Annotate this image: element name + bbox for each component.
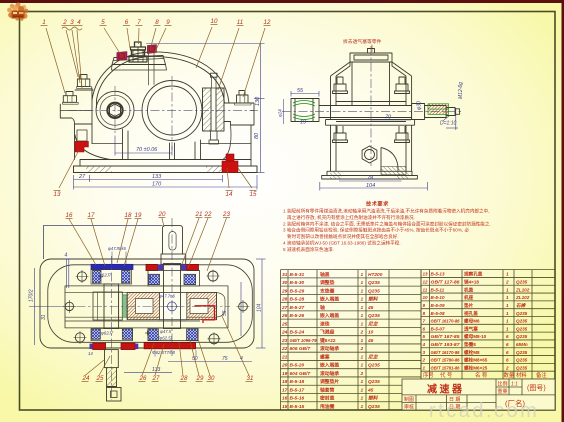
svg-text:GB/T 117-86: GB/T 117-86 — [431, 280, 460, 285]
svg-text:2: 2 — [360, 330, 364, 336]
svg-text:10: 10 — [211, 18, 218, 25]
svg-text:9: 9 — [166, 19, 170, 26]
svg-text:4: 4 — [65, 253, 68, 259]
svg-text:滚动轴承: 滚动轴承 — [320, 345, 339, 352]
svg-text:比例: 比例 — [498, 381, 508, 388]
svg-text:轴盖: 轴盖 — [320, 271, 330, 278]
svg-text:2: 2 — [360, 346, 364, 352]
svg-text:20: 20 — [158, 211, 166, 218]
svg-text:机座: 机座 — [464, 294, 474, 301]
svg-text:2: 2 — [62, 19, 67, 26]
svg-text:机盖: 机盖 — [464, 286, 474, 293]
svg-text:10: 10 — [368, 330, 374, 336]
svg-text:螺栓M8: 螺栓M8 — [464, 349, 480, 356]
svg-text:Q235: Q235 — [516, 350, 528, 355]
svg-text:Q235: Q235 — [516, 280, 528, 285]
svg-text:GB/T 1096-79: GB/T 1096-79 — [290, 338, 317, 344]
svg-text:Q235: Q235 — [368, 379, 380, 385]
svg-text:B-5-10: B-5-10 — [431, 295, 445, 300]
svg-text:11: 11 — [423, 287, 428, 292]
svg-text:6: 6 — [423, 326, 426, 331]
svg-text:轴: 轴 — [320, 304, 325, 311]
svg-text:备注: 备注 — [536, 371, 547, 379]
svg-text:16: 16 — [66, 212, 73, 219]
svg-text:B-5-08: B-5-08 — [431, 311, 445, 316]
svg-text:ZL102: ZL102 — [515, 287, 530, 292]
svg-text:28: 28 — [281, 297, 288, 303]
svg-text:12: 12 — [423, 280, 429, 285]
svg-text:技术要求: 技术要求 — [366, 200, 389, 208]
BOM table — [281, 270, 556, 410]
svg-text:螺塞: 螺塞 — [320, 353, 330, 360]
svg-text:30: 30 — [208, 375, 215, 382]
svg-text:24: 24 — [281, 330, 288, 336]
svg-text:17: 17 — [282, 387, 288, 393]
svg-text:Q235: Q235 — [516, 365, 528, 370]
technical notes — [283, 200, 491, 254]
svg-text:嵌入端盖: 嵌入端盖 — [320, 312, 339, 319]
svg-text:15: 15 — [250, 191, 257, 198]
svg-text:14: 14 — [88, 351, 93, 356]
svg-text:104: 104 — [366, 183, 375, 189]
svg-text:604 GB/T: 604 GB/T — [290, 371, 312, 377]
svg-text:5 减速机表面涂灰色油漆.: 5 减速机表面涂灰色油漆. — [283, 246, 334, 253]
svg-text:1: 1 — [361, 354, 364, 360]
svg-text:55: 55 — [222, 310, 228, 316]
svg-text:Q235: Q235 — [516, 319, 528, 324]
svg-text:Q235: Q235 — [516, 326, 528, 331]
svg-text:GB/T 16170-86: GB/T 16170-86 — [431, 319, 460, 324]
svg-text:70 ±0.06: 70 ±0.06 — [136, 147, 158, 153]
svg-text:4: 4 — [77, 19, 81, 26]
svg-text:HT200: HT200 — [368, 272, 383, 278]
svg-text:45: 45 — [367, 387, 374, 393]
svg-text:11: 11 — [237, 19, 243, 26]
svg-text:6: 6 — [506, 350, 509, 355]
svg-text:制图: 制图 — [404, 396, 414, 403]
svg-text:1: 1 — [361, 297, 364, 303]
svg-text:1: 1 — [361, 338, 364, 344]
svg-text:拆去透气塞等零件: 拆去透气塞等零件 — [343, 38, 382, 45]
svg-text:φ62J7: φ62J7 — [99, 273, 112, 278]
svg-text:B-5-15: B-5-15 — [290, 404, 305, 410]
svg-text:5: 5 — [101, 19, 105, 26]
svg-text:7: 7 — [137, 19, 141, 26]
svg-text:销4×18: 销4×18 — [464, 279, 479, 286]
svg-text:23: 23 — [281, 338, 288, 344]
svg-text:Q235: Q235 — [368, 363, 380, 369]
svg-text:21: 21 — [281, 354, 288, 360]
svg-text:6: 6 — [506, 342, 509, 347]
svg-text:Q235: Q235 — [368, 313, 380, 319]
svg-text:1: 1 — [42, 19, 45, 26]
svg-text:B-5-20: B-5-20 — [290, 363, 305, 369]
svg-text:GB/T 167-85: GB/T 167-85 — [431, 334, 460, 339]
svg-text:代 号: 代 号 — [440, 371, 453, 379]
svg-text:甩油圈: 甩油圈 — [319, 403, 335, 410]
svg-text:支垫圈: 支垫圈 — [320, 287, 335, 294]
svg-text:6: 6 — [506, 334, 509, 339]
svg-text:80: 80 — [254, 132, 260, 139]
svg-text:尼龙: 尼龙 — [368, 320, 379, 327]
svg-text:密封盖: 密封盖 — [320, 395, 335, 402]
svg-text:审核: 审核 — [404, 404, 414, 411]
svg-text:1: 1 — [361, 396, 364, 402]
svg-text:滚动轴承: 滚动轴承 — [320, 370, 339, 377]
svg-text:1: 1 — [361, 321, 364, 327]
svg-text:9: 9 — [423, 303, 426, 308]
svg-text:GB/T 193-87: GB/T 193-87 — [431, 342, 460, 347]
svg-text:石棉: 石棉 — [516, 303, 527, 308]
svg-text:18: 18 — [125, 212, 132, 219]
svg-text:Q235: Q235 — [368, 404, 380, 410]
svg-text:26: 26 — [281, 313, 288, 319]
svg-text:2: 2 — [360, 371, 364, 377]
svg-text:螺母M6: 螺母M6 — [464, 318, 480, 325]
svg-text:130: 130 — [255, 96, 261, 106]
svg-text:GB/T 15781-86: GB/T 15781-86 — [431, 365, 460, 370]
svg-text:1: 1 — [506, 311, 509, 316]
svg-text:键6×22: 键6×22 — [319, 337, 336, 344]
svg-text:31: 31 — [247, 375, 254, 382]
svg-text:螺母M8-10: 螺母M8-10 — [464, 333, 487, 340]
FRONT VIEW — [60, 42, 257, 173]
svg-text:18: 18 — [282, 379, 288, 385]
title block — [402, 379, 555, 410]
svg-text:2 装配前箱体内不涂漆, 结合之平面, 无需纸垫片之箱盖与箱: 2 装配前箱体内不涂漆, 结合之平面, 无需纸垫片之箱盖与箱体接合面可涂密封胶以… — [283, 221, 491, 228]
svg-text:29: 29 — [196, 375, 204, 382]
svg-text:ZL102: ZL102 — [515, 295, 530, 300]
svg-text:1: 1 — [506, 319, 509, 324]
svg-text:16: 16 — [282, 396, 288, 402]
svg-text:27: 27 — [152, 375, 160, 382]
svg-text:1:1: 1:1 — [511, 382, 518, 388]
svg-text:65Mn: 65Mn — [516, 342, 528, 347]
svg-text:Q235: Q235 — [516, 334, 528, 339]
svg-text:14: 14 — [226, 191, 233, 198]
svg-text:螺栓M6×25: 螺栓M6×25 — [464, 364, 488, 371]
logo top-left — [7, 2, 28, 21]
svg-text:19: 19 — [135, 212, 142, 219]
svg-text:1: 1 — [506, 287, 509, 292]
svg-text:75: 75 — [222, 356, 228, 362]
svg-text:螺栓M8×65: 螺栓M8×65 — [464, 357, 488, 364]
svg-text:嵌入端盖: 嵌入端盖 — [320, 362, 339, 369]
svg-text:Φ62.5T7/h8: Φ62.5T7/h8 — [152, 350, 176, 355]
svg-text:27: 27 — [78, 174, 86, 180]
svg-text:45: 45 — [367, 338, 374, 344]
svg-text:22: 22 — [204, 211, 212, 218]
svg-text:塑料: 塑料 — [368, 296, 379, 303]
svg-text:嵌入端盖: 嵌入端盖 — [320, 296, 339, 303]
svg-text:B-5-18: B-5-18 — [290, 379, 305, 385]
svg-text:20: 20 — [281, 363, 288, 369]
svg-text:滚珠: 滚珠 — [320, 320, 330, 327]
svg-text:φ30: φ30 — [417, 101, 423, 110]
svg-text:1: 1 — [361, 313, 364, 319]
svg-text:1: 1 — [506, 295, 509, 300]
svg-text:25: 25 — [96, 375, 104, 382]
svg-text:13: 13 — [423, 272, 429, 277]
svg-text:17: 17 — [88, 212, 95, 219]
svg-text:4: 4 — [422, 342, 426, 347]
svg-text:133: 133 — [152, 174, 162, 180]
svg-text:24: 24 — [82, 375, 90, 382]
svg-text:GB/T 15780-86: GB/T 15780-86 — [431, 358, 460, 363]
svg-text:21: 21 — [195, 211, 203, 218]
svg-text:1: 1 — [361, 404, 364, 410]
svg-text:Q235: Q235 — [368, 288, 380, 294]
svg-text:28: 28 — [180, 375, 188, 382]
svg-text:调整垫片: 调整垫片 — [320, 378, 339, 385]
svg-text:1 装配前所有零件用煤油清洗,滚动轴承用汽油清洗,干后涂油,: 1 装配前所有零件用煤油清洗,滚动轴承用汽油清洗,干后涂油,不允许有杂质附着污物… — [283, 208, 489, 215]
svg-text:1: 1 — [361, 272, 364, 278]
svg-text:29: 29 — [281, 288, 288, 294]
svg-text:调整垫: 调整垫 — [320, 279, 335, 286]
svg-text:4 滚动轴承装机WJ-50 (GBT 16.63-1986): 4 滚动轴承装机WJ-50 (GBT 16.63-1986) 试验之运转平稳. — [283, 240, 401, 247]
svg-text:φ47.7n6: φ47.7n6 — [159, 294, 176, 299]
svg-text:B-5-28: B-5-28 — [290, 297, 305, 303]
svg-text:减速器: 减速器 — [427, 383, 465, 396]
svg-text:70: 70 — [385, 115, 392, 121]
svg-text:B-5-31: B-5-31 — [290, 272, 305, 278]
svg-text:φ62J7: φ62J7 — [101, 331, 114, 336]
svg-text:(图号): (图号) — [527, 384, 546, 392]
svg-text:透气塞: 透气塞 — [464, 325, 478, 332]
svg-text:垫片: 垫片 — [464, 302, 474, 309]
svg-text:要时可刮研以改善接触斑点状况并使其在全部啮合良好.: 要时可刮研以改善接触斑点状况并使其在全部啮合良好. — [287, 233, 399, 240]
svg-text:1: 1 — [361, 280, 364, 286]
svg-text:尼龙: 尼龙 — [368, 353, 379, 360]
svg-text:B-5-24: B-5-24 — [290, 330, 305, 336]
svg-text:26: 26 — [139, 375, 147, 382]
svg-text:Q235: Q235 — [368, 280, 380, 286]
svg-text:1: 1 — [361, 379, 364, 385]
svg-text:rtcad.com: rtcad.com — [429, 400, 539, 422]
svg-text:45: 45 — [367, 305, 374, 311]
svg-text:3 啮合齿侧间隙用铅丝检验, 保证侧隙接触斑点按齿高不小于4: 3 啮合齿侧间隙用铅丝检验, 保证侧隙接触斑点按齿高不小于45%, 按齿长斑点不… — [283, 227, 469, 234]
svg-text:13: 13 — [54, 191, 61, 198]
svg-text:D=1:10: D=1:10 — [440, 121, 456, 127]
svg-text:φ24: φ24 — [279, 109, 284, 117]
svg-text:B-5-29: B-5-29 — [290, 288, 305, 294]
svg-text:B-5-07: B-5-07 — [431, 326, 445, 331]
svg-text:1: 1 — [506, 303, 509, 308]
svg-text:10: 10 — [423, 295, 429, 300]
svg-text:1: 1 — [361, 363, 364, 369]
svg-text:55: 55 — [297, 88, 304, 94]
svg-text:B-5-26: B-5-26 — [290, 313, 305, 319]
svg-text:B-5-30: B-5-30 — [290, 280, 305, 286]
svg-text:(φ62.5): (φ62.5) — [158, 336, 173, 341]
svg-text:B-5-17: B-5-17 — [290, 387, 305, 393]
svg-text:视孔盖: 视孔盖 — [464, 310, 478, 317]
svg-text:31: 31 — [41, 314, 47, 320]
svg-text:φ47.5: φ47.5 — [160, 329, 172, 334]
svg-text:B-5-13: B-5-13 — [431, 272, 445, 277]
svg-text:GB/T 16170-86: GB/T 16170-86 — [431, 350, 460, 355]
svg-text:重量: 重量 — [498, 388, 508, 395]
svg-text:22: 22 — [281, 346, 288, 352]
svg-text:φ47J5/k6: φ47J5/k6 — [108, 246, 126, 251]
svg-text:5: 5 — [423, 334, 426, 339]
svg-text:23: 23 — [222, 211, 230, 218]
svg-text:12: 12 — [264, 19, 271, 26]
svg-text:3: 3 — [70, 19, 74, 26]
svg-text:1: 1 — [506, 326, 509, 331]
svg-text:31: 31 — [282, 272, 288, 278]
svg-text:78: 78 — [367, 176, 374, 182]
svg-text:27: 27 — [281, 305, 288, 311]
svg-text:B-5-16: B-5-16 — [290, 396, 305, 402]
svg-text:25: 25 — [281, 321, 288, 327]
svg-text:1: 1 — [361, 305, 364, 311]
svg-text:轴套筒: 轴套筒 — [320, 386, 335, 393]
svg-text:3: 3 — [423, 350, 426, 355]
svg-text:19: 19 — [300, 120, 306, 126]
svg-text:B-5-27: B-5-27 — [290, 305, 305, 311]
svg-text:垫圈8: 垫圈8 — [464, 341, 476, 348]
svg-text:飞溅盘: 飞溅盘 — [320, 329, 335, 336]
svg-text:19: 19 — [282, 371, 288, 377]
SECTION VIEW (bottom-left) — [40, 259, 254, 348]
svg-text:2: 2 — [505, 280, 509, 285]
svg-text:1: 1 — [423, 365, 426, 370]
svg-text:M12-6g: M12-6g — [458, 82, 464, 99]
svg-text:2: 2 — [505, 365, 509, 370]
svg-text:8: 8 — [423, 311, 426, 316]
svg-text:15: 15 — [282, 404, 288, 410]
svg-text:名 称: 名 称 — [475, 371, 488, 379]
svg-text:6: 6 — [506, 358, 509, 363]
svg-text:7: 7 — [423, 319, 426, 324]
svg-text:2: 2 — [422, 358, 426, 363]
svg-text:Q235: Q235 — [516, 311, 528, 316]
svg-text:B-5-11: B-5-11 — [431, 287, 445, 292]
svg-text:104: 104 — [257, 303, 263, 312]
svg-text:序号: 序号 — [423, 371, 434, 379]
svg-text:1: 1 — [361, 387, 364, 393]
svg-text:606 GB/T: 606 GB/T — [290, 346, 312, 352]
svg-text:观察孔盖: 观察孔盖 — [464, 271, 483, 278]
svg-text:6: 6 — [125, 19, 129, 26]
svg-text:材料: 材料 — [516, 371, 527, 379]
svg-text:170: 170 — [152, 182, 162, 188]
svg-text:塑料: 塑料 — [368, 395, 379, 402]
svg-text:Q235: Q235 — [516, 358, 528, 363]
svg-text:1: 1 — [361, 288, 364, 294]
svg-text:1: 1 — [506, 272, 509, 277]
svg-text:数量: 数量 — [504, 371, 515, 379]
svg-text:B-5-09: B-5-09 — [431, 303, 445, 308]
svg-text:8: 8 — [155, 19, 159, 26]
svg-text:再之进行存放, 机壳内有壁涂上红色耐油漆并不许有行涂漆质况.: 再之进行存放, 机壳内有壁涂上红色耐油漆并不许有行涂漆质况. — [287, 214, 415, 221]
svg-text:170/2: 170/2 — [29, 289, 35, 302]
svg-text:30: 30 — [282, 280, 288, 286]
